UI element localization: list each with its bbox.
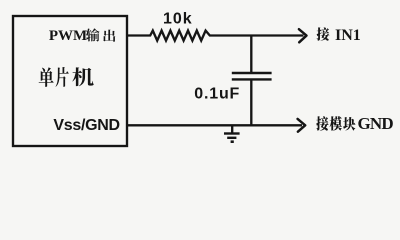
svg-text:GND: GND bbox=[358, 114, 394, 133]
svg-text:10k: 10k bbox=[163, 10, 193, 27]
svg-text:IN1: IN1 bbox=[335, 27, 361, 44]
svg-text:0.1uF: 0.1uF bbox=[194, 86, 240, 103]
svg-text:PWM: PWM bbox=[49, 28, 87, 44]
svg-text:Vss/GND: Vss/GND bbox=[53, 117, 119, 134]
